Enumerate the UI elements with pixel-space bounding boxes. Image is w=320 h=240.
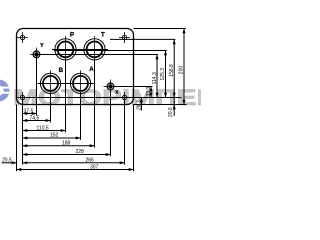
port B <box>40 70 60 96</box>
hole Y <box>30 48 44 62</box>
dimension 152 <box>23 133 81 139</box>
svg-text:T: T <box>101 32 105 39</box>
extension col left edge <box>16 105 18 172</box>
extension line Y to dim 114.3 <box>37 54 159 56</box>
svg-text:200: 200 <box>178 66 184 75</box>
dimension 266 <box>23 158 125 164</box>
corner hole bottom-right <box>119 92 130 103</box>
dimension 20,5 <box>2 158 17 164</box>
svg-text:B: B <box>59 67 64 74</box>
svg-text:20,6: 20,6 <box>168 107 174 117</box>
small vertical dimension 28,3 <box>136 98 142 111</box>
svg-text:A: A <box>89 66 94 73</box>
extension col B <box>50 93 52 122</box>
corner hole top-left <box>17 32 28 43</box>
vertical dimension 200 <box>178 29 184 105</box>
svg-text:33,3: 33,3 <box>146 87 152 97</box>
corner hole bottom-left <box>17 92 28 103</box>
plate outline <box>17 29 134 105</box>
svg-text:152: 152 <box>50 133 59 139</box>
svg-text:28,3: 28,3 <box>136 100 142 110</box>
vertical dimension 125,3 <box>160 51 166 98</box>
extension col A <box>80 93 82 140</box>
extension col left corner holes <box>22 100 24 165</box>
dimension 110,5 <box>23 125 66 131</box>
svg-text:188: 188 <box>62 140 71 146</box>
corner hole top-right <box>119 32 130 43</box>
extension line P-T to dim 125.3 <box>54 50 167 52</box>
extension col X <box>110 89 112 156</box>
centerline P-T row <box>52 49 108 51</box>
port P <box>55 36 76 63</box>
svg-text:114,3: 114,3 <box>152 72 158 84</box>
dimension 37,5 <box>23 108 37 114</box>
extension col right corner holes <box>124 100 126 165</box>
port A <box>70 70 90 96</box>
extension col P <box>65 60 67 133</box>
watermark logo <box>0 80 10 102</box>
small vertical dimension 33,3 <box>146 87 152 98</box>
svg-text:307: 307 <box>90 164 99 170</box>
svg-text:228: 228 <box>76 149 85 155</box>
svg-text:125,3: 125,3 <box>160 68 166 81</box>
extension line X row right <box>114 86 153 88</box>
extension line bottom edge to dim 200 <box>134 104 187 106</box>
dimension 74,5 <box>23 115 51 121</box>
dimension 228 <box>23 149 111 155</box>
svg-text:266: 266 <box>86 158 95 164</box>
port T <box>84 36 105 63</box>
svg-text:74,5: 74,5 <box>30 115 40 121</box>
extension line top corner holes to dim 158.8 <box>110 38 175 40</box>
svg-text:158,8: 158,8 <box>169 64 175 77</box>
svg-text:20,5: 20,5 <box>2 158 12 164</box>
svg-text:37,5: 37,5 <box>24 108 34 114</box>
extension line bottom corner holes row <box>23 97 182 99</box>
extension col right edge <box>133 105 135 172</box>
vertical dimension 158,8 <box>169 39 175 97</box>
svg-text:Y: Y <box>40 43 44 49</box>
hole X <box>104 80 118 94</box>
extension col Y <box>36 58 38 116</box>
svg-text:P: P <box>70 32 74 39</box>
dimension 188 <box>23 140 95 146</box>
vertical dimension 114,3 <box>152 55 158 98</box>
extension line top edge to dim 200 <box>134 28 186 30</box>
extension col T <box>94 60 96 148</box>
small vertical dimension 20,6 <box>168 98 174 118</box>
dimension 307 <box>17 164 134 170</box>
svg-text:110,5: 110,5 <box>37 125 49 131</box>
centerline B-A row <box>38 83 94 85</box>
